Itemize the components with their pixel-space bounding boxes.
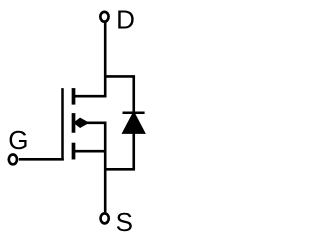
mosfet body arrowhead [73,118,89,128]
mosfet gate bar [61,88,64,160]
svg-text:G: G [8,125,28,155]
terminal S [101,213,109,223]
mosfet channel middle segment [72,113,76,133]
diode body diode triangle [124,113,144,132]
wire source stub [74,150,106,153]
svg-text:D: D [116,4,135,34]
diode body diode cathode bar [123,112,145,115]
wire diode anode vertical [132,133,135,169]
svg-text:S: S [116,207,133,233]
terminal G [9,155,17,165]
wire body vertical down [104,123,107,213]
mosfet channel bottom segment [72,143,76,160]
terminal D [100,12,108,22]
wire diode top branch [105,75,135,78]
wire diode cathode vertical [132,76,135,112]
wire body stub [84,122,107,125]
wire gate lead [19,158,64,161]
wire drain vertical [104,22,107,97]
mosfet channel top segment [72,88,76,105]
wire diode bottom link [105,168,135,171]
wire drain stub to channel [74,95,107,98]
